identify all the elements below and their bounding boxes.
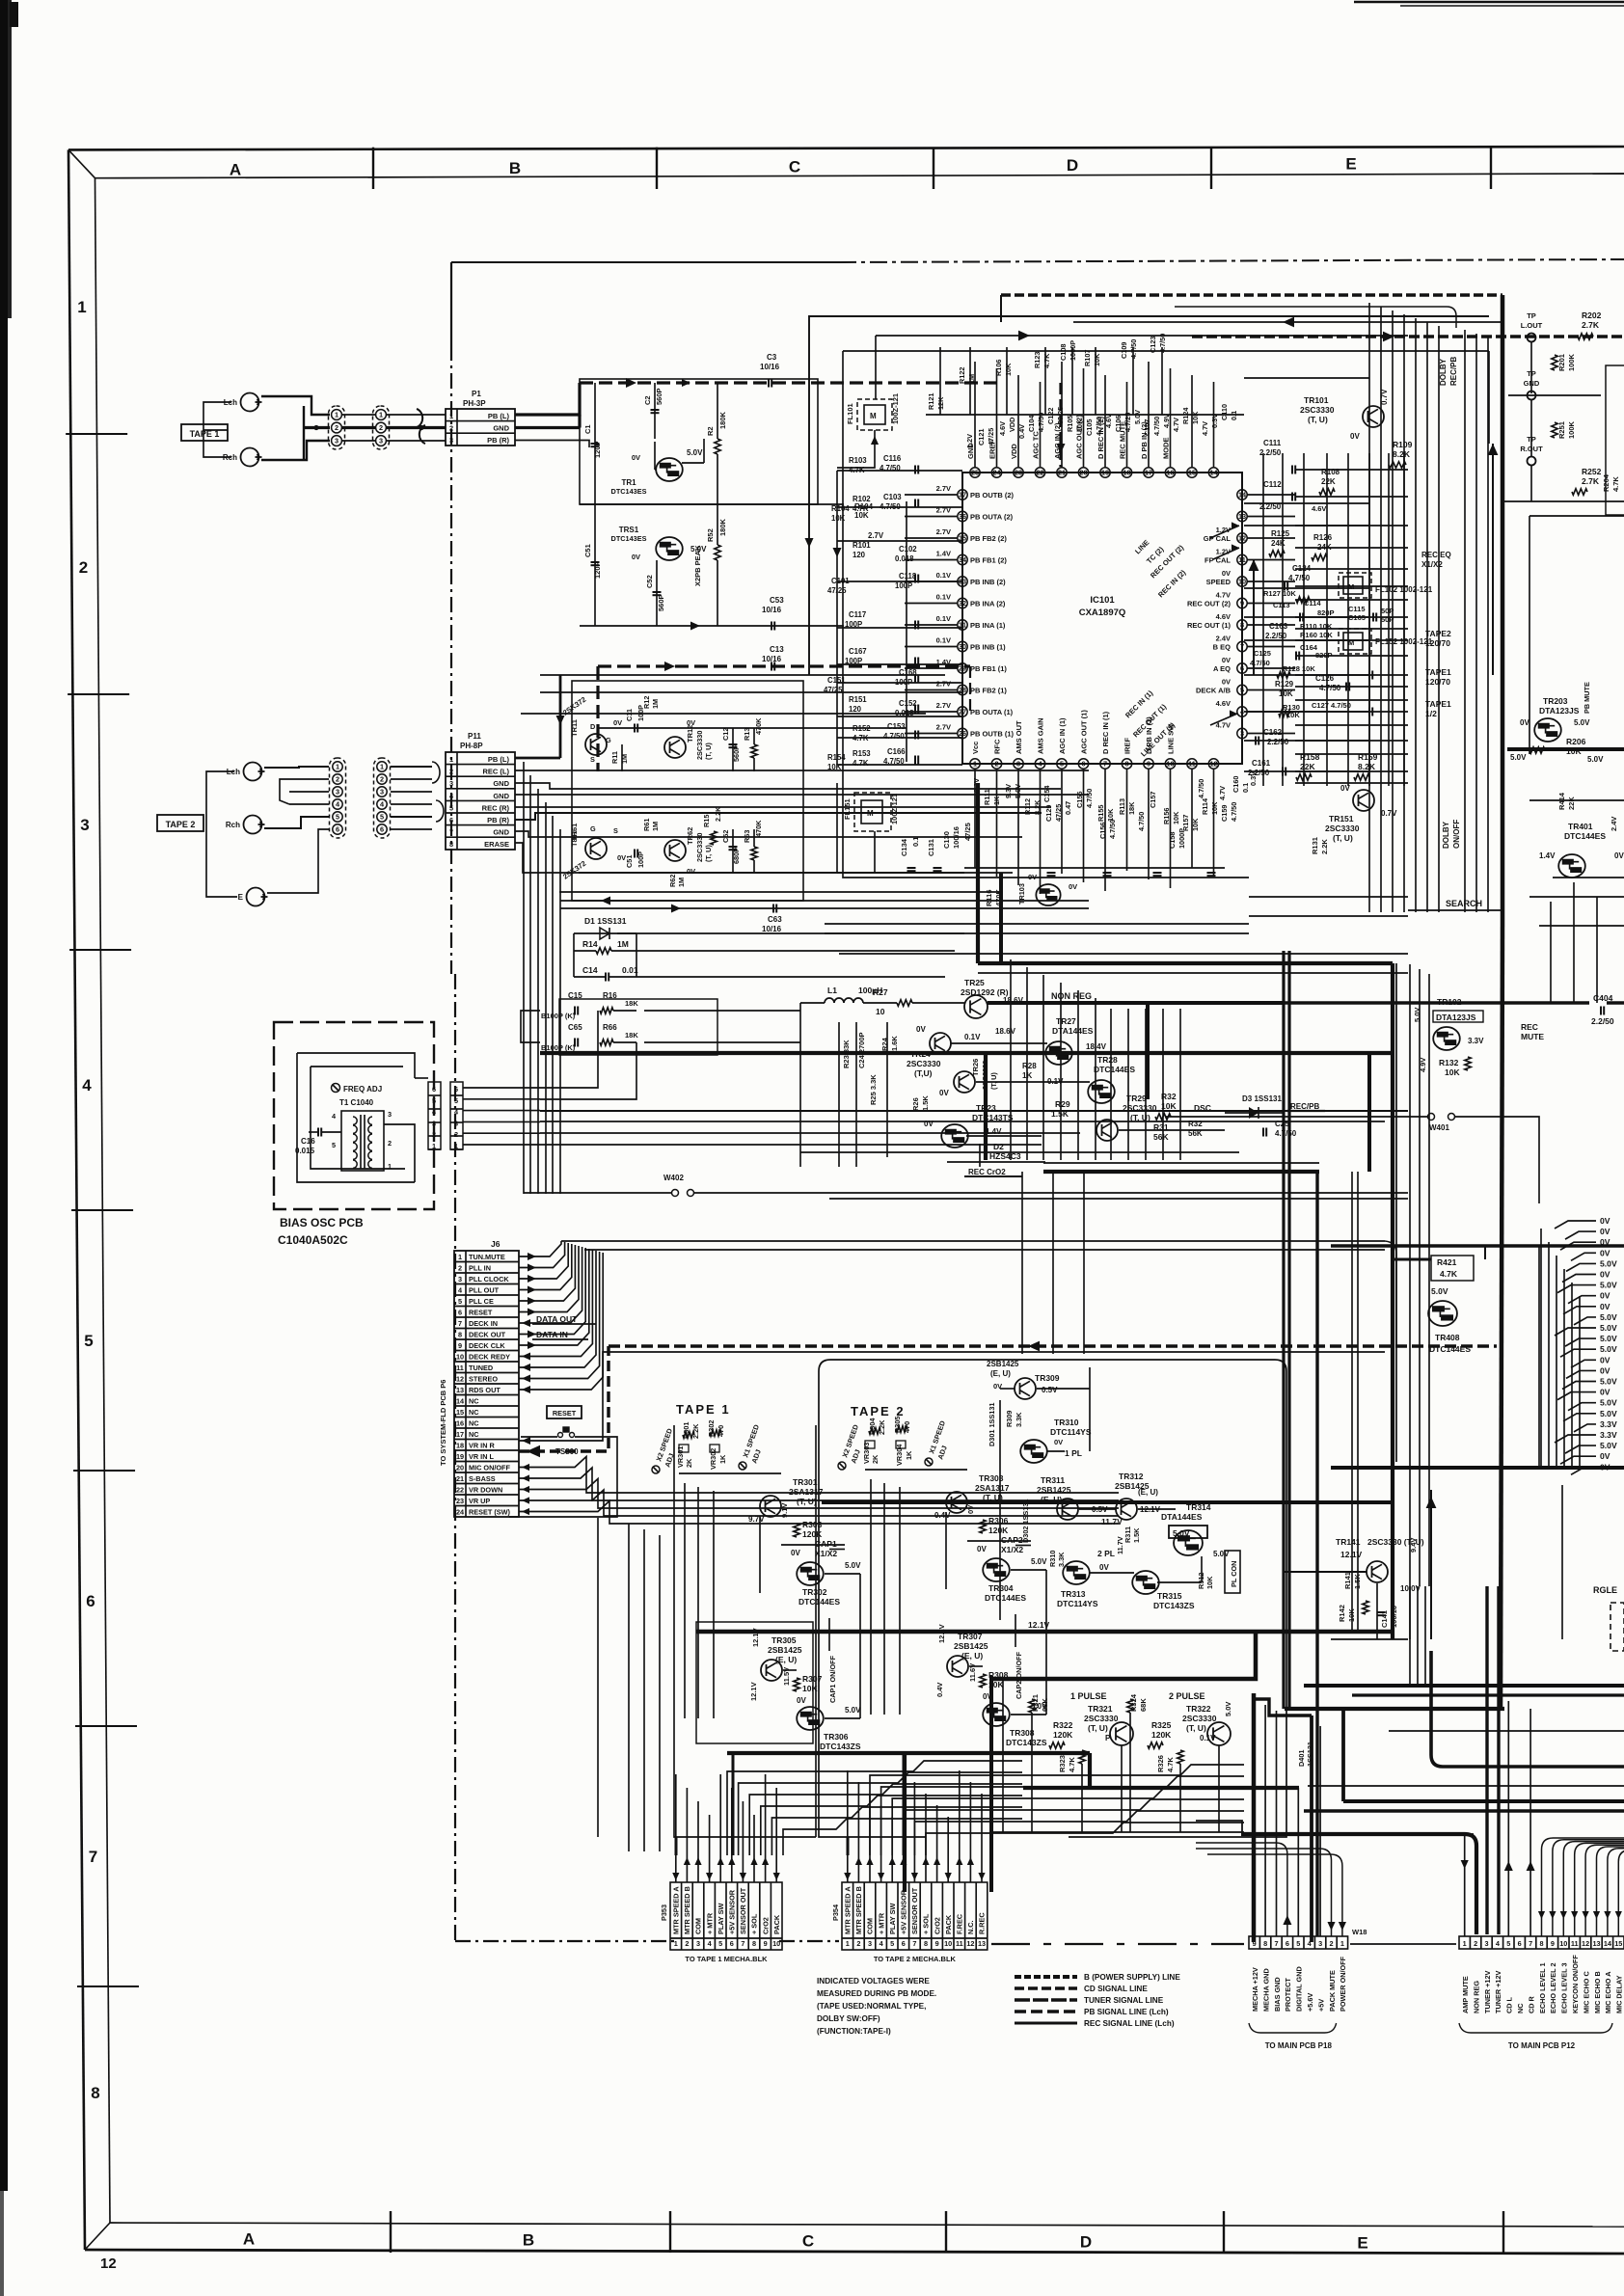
svg-text:8: 8 bbox=[449, 840, 453, 849]
thick bend at R421 bbox=[1393, 1258, 1431, 1261]
svg-text:GND: GND bbox=[493, 424, 509, 433]
svg-text:5: 5 bbox=[454, 1096, 458, 1105]
svg-text:10K: 10K bbox=[1205, 1576, 1214, 1589]
svg-text:1M: 1M bbox=[651, 822, 660, 831]
svg-text:MTR SPEED B: MTR SPEED B bbox=[854, 1886, 863, 1934]
svg-text:TR313: TR313 bbox=[1061, 1589, 1086, 1599]
svg-text:5.0V: 5.0V bbox=[1600, 1281, 1617, 1290]
svg-text:56K: 56K bbox=[1153, 1132, 1169, 1142]
svg-text:0V: 0V bbox=[1600, 1237, 1610, 1247]
TAPE 2 label box bbox=[157, 815, 203, 831]
BIAS OSC PCB box bbox=[274, 1022, 434, 1209]
svg-text:(T,U): (T,U) bbox=[914, 1068, 933, 1078]
legend REC signal line bbox=[1015, 2022, 1077, 2025]
svg-text:4.7V: 4.7V bbox=[1172, 418, 1180, 432]
svg-text:1: 1 bbox=[335, 411, 338, 419]
wire PB dash tape2 join bbox=[907, 381, 1001, 384]
svg-text:12: 12 bbox=[966, 1939, 974, 1948]
svg-text:NC: NC bbox=[469, 1408, 479, 1417]
svg-text:AMP MUTE: AMP MUTE bbox=[1461, 1976, 1470, 2013]
svg-text:PB INA (1): PB INA (1) bbox=[970, 621, 1006, 630]
svg-text:C1: C1 bbox=[583, 424, 592, 434]
PCB boundary dash-dot vertical bbox=[450, 262, 452, 345]
row tick 0 bbox=[66, 433, 127, 435]
svg-text:0V: 0V bbox=[1600, 1291, 1610, 1301]
svg-text:4.7K: 4.7K bbox=[853, 759, 869, 768]
svg-text:D302 1SS131: D302 1SS131 bbox=[1021, 1499, 1030, 1543]
svg-text:R102: R102 bbox=[853, 495, 871, 503]
svg-text:0.7V: 0.7V bbox=[1381, 809, 1397, 818]
transistor TR315 DTC143ZS bbox=[1132, 1571, 1159, 1594]
svg-text:5: 5 bbox=[890, 1939, 894, 1948]
column tick bottom 4 bbox=[1502, 2211, 1504, 2253]
IC101 pin 34 PB FB1 (2) bbox=[958, 554, 967, 564]
svg-text:RFC: RFC bbox=[993, 739, 1002, 754]
svg-text:3: 3 bbox=[449, 779, 453, 788]
svg-text:3: 3 bbox=[696, 1939, 700, 1948]
svg-text:C53: C53 bbox=[770, 596, 784, 605]
signal stub 0V 6 bbox=[1562, 1275, 1596, 1283]
svg-text:5: 5 bbox=[84, 1332, 93, 1350]
svg-text:R309: R309 bbox=[1005, 1411, 1014, 1427]
svg-text:1: 1 bbox=[388, 1162, 392, 1171]
splice bracket bbox=[417, 409, 422, 427]
svg-text:R156: R156 bbox=[1162, 808, 1171, 824]
dash-dot between P353 P354 bbox=[779, 1940, 839, 1942]
svg-text:VR IN R: VR IN R bbox=[469, 1442, 495, 1450]
svg-text:CAP1 ON/OFF: CAP1 ON/OFF bbox=[828, 1655, 837, 1703]
svg-text:3.3V: 3.3V bbox=[1600, 1430, 1617, 1440]
transistor TR26 2SC3330 bbox=[954, 1071, 975, 1093]
svg-text:2.7V: 2.7V bbox=[868, 531, 884, 540]
svg-text:0V: 0V bbox=[797, 1696, 806, 1705]
frame inner border bbox=[95, 174, 1624, 178]
wires into P353 bbox=[672, 1855, 780, 1882]
svg-text:18.6V: 18.6V bbox=[995, 1027, 1016, 1036]
jack Rch TAPE2 bbox=[244, 816, 262, 834]
IC101 pin 16 top bbox=[1165, 468, 1175, 477]
svg-text:VR IN L: VR IN L bbox=[469, 1452, 494, 1461]
svg-text:TR302: TR302 bbox=[802, 1587, 827, 1597]
svg-text:0V: 0V bbox=[791, 1549, 800, 1557]
svg-text:PB (L): PB (L) bbox=[488, 412, 510, 420]
svg-text:R131: R131 bbox=[1311, 837, 1319, 854]
svg-text:2 PULSE: 2 PULSE bbox=[1169, 1691, 1205, 1701]
svg-text:2.4V: 2.4V bbox=[1216, 635, 1231, 643]
svg-text:2.2/50: 2.2/50 bbox=[1265, 632, 1287, 640]
svg-text:NC: NC bbox=[469, 1397, 479, 1406]
svg-text:TUNER +12V: TUNER +12V bbox=[1483, 1970, 1492, 2013]
svg-text:4.6V: 4.6V bbox=[1104, 414, 1113, 428]
power cluster 0V rail bbox=[800, 1151, 1239, 1153]
svg-text:PLL CE: PLL CE bbox=[469, 1297, 494, 1306]
svg-text:R153: R153 bbox=[853, 749, 871, 758]
IC101 pin 4 right bbox=[1237, 707, 1247, 716]
svg-text:D REC IN (1): D REC IN (1) bbox=[1101, 711, 1110, 754]
svg-text:DTC144ES: DTC144ES bbox=[1429, 1344, 1471, 1354]
svg-text:D3 1SS131: D3 1SS131 bbox=[1242, 1094, 1282, 1103]
svg-text:5: 5 bbox=[1240, 686, 1244, 694]
svg-text:4.7/50: 4.7/50 bbox=[1275, 1129, 1297, 1138]
svg-text:10K: 10K bbox=[1075, 419, 1084, 432]
svg-text:R.REC: R.REC bbox=[978, 1912, 987, 1934]
svg-text:TR11: TR11 bbox=[570, 719, 579, 737]
svg-text:4.7/50: 4.7/50 bbox=[1095, 417, 1103, 436]
svg-text:6: 6 bbox=[730, 1939, 734, 1948]
svg-text:2: 2 bbox=[685, 1939, 689, 1948]
svg-text:C117: C117 bbox=[849, 610, 866, 619]
svg-text:TR305: TR305 bbox=[771, 1635, 797, 1645]
svg-text:R106: R106 bbox=[994, 360, 1003, 376]
connector pins TAPE2 a bbox=[330, 758, 346, 838]
svg-text:0.015: 0.015 bbox=[295, 1147, 315, 1155]
svg-text:R15: R15 bbox=[702, 815, 711, 827]
svg-text:PL CON: PL CON bbox=[1230, 1561, 1238, 1587]
svg-text:560P: 560P bbox=[657, 594, 665, 611]
label PL CON boxed bbox=[1225, 1551, 1240, 1593]
svg-text:12: 12 bbox=[1238, 534, 1246, 543]
IC101 pin 12 right bbox=[1237, 533, 1247, 543]
signal stub 5.0V 18 bbox=[1568, 1403, 1596, 1411]
svg-text:0V: 0V bbox=[977, 1545, 987, 1553]
svg-text:1M: 1M bbox=[620, 754, 629, 764]
svg-text:120K: 120K bbox=[1151, 1730, 1172, 1740]
svg-text:4.6V: 4.6V bbox=[1312, 504, 1326, 513]
svg-text:VR303: VR303 bbox=[862, 1443, 871, 1464]
svg-text:4.7/50: 4.7/50 bbox=[1085, 789, 1094, 808]
wire J6 bus line 1 bbox=[561, 1240, 1385, 1242]
svg-text:27: 27 bbox=[959, 708, 966, 716]
svg-text:5: 5 bbox=[432, 1096, 436, 1105]
thick drop x1420 bbox=[1367, 1053, 1371, 1172]
svg-text:PLL IN: PLL IN bbox=[469, 1264, 491, 1273]
svg-text:15: 15 bbox=[1614, 1939, 1622, 1948]
svg-text:DOLBY: DOLBY bbox=[1442, 821, 1450, 849]
svg-text:C129: C129 bbox=[1044, 805, 1053, 822]
wire dashed bottom link bbox=[991, 1943, 1244, 1945]
svg-text:DTC144ES: DTC144ES bbox=[985, 1593, 1026, 1603]
svg-text:5.0V: 5.0V bbox=[1600, 1258, 1617, 1268]
svg-text:11: 11 bbox=[956, 1939, 963, 1948]
svg-text:3: 3 bbox=[80, 816, 89, 834]
svg-text:5.0V: 5.0V bbox=[1587, 755, 1604, 764]
svg-text:36: 36 bbox=[959, 512, 966, 521]
svg-text:R126: R126 bbox=[1313, 533, 1333, 542]
svg-text:3: 3 bbox=[336, 788, 339, 797]
svg-text:18: 18 bbox=[456, 1442, 464, 1450]
svg-text:3: 3 bbox=[1016, 760, 1020, 769]
svg-text:AMS OUT: AMS OUT bbox=[1015, 720, 1023, 754]
IC101 pin 9 right bbox=[1237, 598, 1247, 608]
IC101 pin 31 PB INA (1) bbox=[958, 620, 967, 630]
svg-text:ECHO LEVEL 2: ECHO LEVEL 2 bbox=[1549, 1962, 1557, 2013]
wire J6 pin 1 bbox=[519, 1256, 536, 1257]
svg-text:6: 6 bbox=[902, 1939, 906, 1948]
IC101 pin 8 right bbox=[1237, 620, 1247, 630]
svg-text:2SC3330: 2SC3330 bbox=[695, 731, 704, 760]
svg-text:TR26: TR26 bbox=[971, 1059, 980, 1076]
transistor TR24 2SC3330 bbox=[930, 1033, 951, 1054]
svg-text:PB (R): PB (R) bbox=[487, 816, 509, 824]
thin rails around y999 bbox=[825, 923, 1249, 925]
C15 box bbox=[559, 999, 717, 1055]
signal stub 0V 9 bbox=[1563, 1307, 1596, 1314]
svg-text:BIAS GND: BIAS GND bbox=[1273, 1977, 1282, 2012]
svg-text:R306: R306 bbox=[988, 1516, 1009, 1526]
svg-text:TR27: TR27 bbox=[1056, 1016, 1076, 1026]
svg-text:2: 2 bbox=[856, 1939, 860, 1948]
wire J6 pin 23 bbox=[519, 1499, 536, 1501]
svg-text:2: 2 bbox=[380, 775, 384, 784]
svg-text:14: 14 bbox=[456, 1397, 465, 1406]
PCB boundary dash-dot bottom horizontal bbox=[455, 1940, 675, 1942]
svg-text:680P: 680P bbox=[732, 848, 741, 864]
wire J6 bus line 2 bbox=[584, 1249, 1385, 1251]
svg-text:DECK REDY: DECK REDY bbox=[469, 1353, 510, 1362]
svg-text:REC OUT (2): REC OUT (2) bbox=[1187, 600, 1232, 608]
svg-text:DTC143ZS: DTC143ZS bbox=[1006, 1738, 1047, 1747]
wire J6 pin 3 bbox=[519, 1278, 536, 1280]
svg-text:C2: C2 bbox=[643, 395, 652, 405]
svg-text:1: 1 bbox=[449, 412, 453, 420]
IC101 pin 5 bottom bbox=[1057, 759, 1067, 769]
svg-text:ECHO LEVEL 1: ECHO LEVEL 1 bbox=[1538, 1962, 1547, 2013]
svg-text:C155: C155 bbox=[1075, 792, 1084, 808]
svg-text:REC/PB: REC/PB bbox=[1449, 357, 1458, 386]
svg-text:8: 8 bbox=[752, 1939, 756, 1948]
wire J6 pin 22 bbox=[519, 1489, 536, 1491]
IC101 pin 33 PB INB (2) bbox=[958, 577, 967, 586]
svg-text:2SC3330: 2SC3330 bbox=[1325, 824, 1360, 833]
svg-text:TO TAPE 1 MECHA.BLK: TO TAPE 1 MECHA.BLK bbox=[685, 1955, 768, 1963]
svg-text:SENSOR OUT: SENSOR OUT bbox=[910, 1887, 919, 1934]
svg-text:C121: C121 bbox=[977, 429, 986, 446]
TAPE2 block outer box bbox=[830, 1360, 1286, 1837]
FREQ ADJ bbox=[332, 1084, 340, 1093]
svg-text:4.7K: 4.7K bbox=[853, 504, 869, 513]
label X2 SPEED ADJ T1 bbox=[652, 1466, 660, 1473]
svg-text:(T, U): (T, U) bbox=[1333, 833, 1353, 843]
svg-text:4.7K: 4.7K bbox=[1166, 1757, 1175, 1772]
svg-text:TO MAIN PCB P12: TO MAIN PCB P12 bbox=[1508, 2041, 1576, 2050]
svg-text:DATA OUT: DATA OUT bbox=[536, 1314, 578, 1324]
IC101 pin 11 right bbox=[1237, 554, 1247, 564]
svg-text:5: 5 bbox=[458, 1297, 462, 1306]
svg-text:TUN.MUTE: TUN.MUTE bbox=[469, 1253, 505, 1261]
wire J6 pin 20 bbox=[519, 1467, 536, 1469]
IC101 pin 35 PB FB2 (2) bbox=[958, 533, 967, 543]
svg-text:T861: T861 bbox=[570, 830, 579, 847]
svg-text:0.018: 0.018 bbox=[895, 554, 914, 563]
svg-text:D301 1SS131: D301 1SS131 bbox=[988, 1403, 996, 1446]
svg-text:DTC143ZS: DTC143ZS bbox=[820, 1742, 861, 1751]
up arrow right bbox=[1488, 444, 1499, 455]
svg-text:6: 6 bbox=[454, 1085, 458, 1094]
svg-text:2: 2 bbox=[454, 1130, 458, 1139]
svg-text:1.6K: 1.6K bbox=[890, 1036, 899, 1051]
svg-text:C153: C153 bbox=[887, 722, 906, 731]
svg-text:12.1V: 12.1V bbox=[749, 1682, 758, 1701]
svg-text:TR1: TR1 bbox=[621, 478, 636, 487]
svg-text:RESET: RESET bbox=[553, 1409, 577, 1418]
svg-text:R125: R125 bbox=[1271, 529, 1290, 538]
svg-text:AGC TC: AGC TC bbox=[1032, 431, 1041, 459]
svg-text:C130: C130 bbox=[942, 831, 951, 849]
svg-text:180K: 180K bbox=[718, 518, 727, 536]
svg-text:COM: COM bbox=[694, 1918, 703, 1934]
row tick 1 bbox=[68, 693, 129, 695]
wire fan into P354 bbox=[870, 1765, 1244, 1855]
svg-text:470K: 470K bbox=[754, 820, 763, 837]
transistor TR313 DTC114YS bbox=[1063, 1561, 1090, 1584]
svg-text:9: 9 bbox=[935, 1939, 939, 1948]
svg-text:R52: R52 bbox=[706, 528, 715, 542]
label X1 SPEED ADJ T2 bbox=[925, 1458, 933, 1466]
TAPE1 inner box TR305 TR306 bbox=[696, 1622, 813, 1743]
thick rail y1522 bbox=[1331, 1466, 1624, 1470]
svg-text:TUNER SIGNAL LINE: TUNER SIGNAL LINE bbox=[1084, 1996, 1164, 2005]
signal stub 5.0V 7 bbox=[1557, 1285, 1596, 1293]
IC101 pin 29 PB FB1 (1) bbox=[958, 663, 967, 673]
signal stub 0V 3 bbox=[1560, 1242, 1596, 1250]
wire J6 pin 10 bbox=[519, 1356, 536, 1358]
svg-text:2.2K: 2.2K bbox=[1320, 839, 1329, 854]
wires TR309-TR315 cluster bbox=[1000, 1367, 1202, 1620]
svg-text:4.7V: 4.7V bbox=[1218, 786, 1227, 800]
svg-text:(E, U): (E, U) bbox=[990, 1369, 1011, 1378]
svg-text:0V: 0V bbox=[1600, 1302, 1610, 1311]
svg-text:0V: 0V bbox=[1600, 1227, 1610, 1236]
IC101 pin 7 bottom bbox=[1100, 759, 1110, 769]
svg-text:560P: 560P bbox=[655, 388, 663, 405]
svg-text:5.0V: 5.0V bbox=[1600, 1334, 1617, 1343]
thin verticals x1402 bbox=[1351, 1172, 1353, 1632]
svg-text:C104: C104 bbox=[1027, 415, 1036, 432]
svg-text:DTC143ES: DTC143ES bbox=[611, 487, 647, 496]
svg-text:4: 4 bbox=[82, 1076, 92, 1094]
svg-text:0V: 0V bbox=[1600, 1355, 1610, 1364]
long wires P11 to IC left bbox=[521, 675, 1013, 977]
wire J6 pin 12 bbox=[519, 1378, 536, 1380]
svg-text:CrO2: CrO2 bbox=[933, 1917, 941, 1934]
svg-text:C112: C112 bbox=[1263, 480, 1282, 489]
IC101 pin 27 PB OUTA (1) bbox=[958, 707, 967, 716]
svg-text:TR315: TR315 bbox=[1157, 1591, 1182, 1601]
svg-text:TAPE 1: TAPE 1 bbox=[676, 1402, 731, 1417]
legend B power supply line bbox=[1015, 1975, 1077, 1979]
signal stub 0V 15 bbox=[1566, 1370, 1596, 1378]
svg-text:2.2/50: 2.2/50 bbox=[1591, 1016, 1614, 1026]
svg-text:10: 10 bbox=[1559, 1939, 1567, 1948]
IC101 pin 17 top bbox=[1144, 468, 1153, 477]
svg-text:5.0V: 5.0V bbox=[1600, 1409, 1617, 1418]
heavy rail y1902 to P12 bbox=[1196, 1821, 1474, 1834]
wire ladder right column bbox=[1244, 303, 1488, 916]
svg-text:5: 5 bbox=[1296, 1939, 1300, 1948]
svg-text:6: 6 bbox=[1081, 760, 1085, 769]
TAPE2 preamp box bbox=[572, 681, 803, 901]
svg-text:C125: C125 bbox=[1254, 649, 1271, 658]
vertical bundle below P11 bbox=[524, 762, 560, 1194]
svg-text:PH-3P: PH-3P bbox=[463, 399, 486, 408]
svg-text:13: 13 bbox=[1238, 512, 1246, 521]
wire J6 pin 7 bbox=[519, 1322, 536, 1324]
wire J6 VR IN L PB dashed bbox=[519, 1346, 609, 1451]
svg-text:0V: 0V bbox=[632, 453, 640, 462]
svg-text:DECK IN: DECK IN bbox=[469, 1319, 498, 1328]
svg-text:C110: C110 bbox=[1220, 404, 1229, 420]
capacitor C11 100P bbox=[634, 724, 636, 733]
svg-text:C105: C105 bbox=[1085, 419, 1094, 436]
svg-text:TO MAIN PCB P18: TO MAIN PCB P18 bbox=[1265, 2041, 1333, 2050]
svg-text:1K: 1K bbox=[905, 1450, 913, 1460]
svg-text:TR401: TR401 bbox=[1568, 822, 1593, 831]
svg-text:3: 3 bbox=[379, 437, 383, 446]
svg-text:R201: R201 bbox=[1557, 354, 1566, 371]
svg-text:23: 23 bbox=[456, 1497, 464, 1505]
TAPE 1 label box bbox=[181, 424, 228, 441]
svg-text:1: 1 bbox=[379, 411, 383, 419]
svg-text:C115: C115 bbox=[1348, 605, 1366, 613]
wire J6 pin 21 bbox=[519, 1477, 536, 1479]
svg-text:TR311: TR311 bbox=[1041, 1475, 1065, 1485]
svg-text:1: 1 bbox=[458, 1253, 462, 1261]
svg-text:5: 5 bbox=[718, 1939, 722, 1948]
wire J6 pin 9 bbox=[519, 1344, 536, 1346]
svg-text:C: C bbox=[789, 158, 800, 176]
svg-text:B100P (K): B100P (K) bbox=[541, 1043, 576, 1052]
svg-text:R141: R141 bbox=[1343, 1572, 1352, 1589]
svg-text:4.7/50: 4.7/50 bbox=[1197, 779, 1205, 798]
svg-text:REC CrO2: REC CrO2 bbox=[968, 1168, 1006, 1176]
svg-text:C166: C166 bbox=[887, 747, 906, 756]
IC101 pin 5 right bbox=[1237, 685, 1247, 694]
svg-text:VR UP: VR UP bbox=[469, 1497, 490, 1505]
wires TR141 bbox=[1283, 1572, 1408, 1639]
svg-text:820P: 820P bbox=[1317, 608, 1335, 617]
svg-text:TR203: TR203 bbox=[1543, 696, 1568, 706]
svg-text:A EQ: A EQ bbox=[1213, 664, 1231, 673]
svg-text:PB (R): PB (R) bbox=[487, 436, 509, 445]
svg-text:32: 32 bbox=[959, 599, 966, 608]
svg-text:REC SIGNAL LINE (Lch): REC SIGNAL LINE (Lch) bbox=[1084, 2019, 1175, 2028]
svg-text:7: 7 bbox=[449, 828, 453, 837]
svg-text:26: 26 bbox=[959, 729, 966, 738]
svg-text:C65: C65 bbox=[568, 1023, 582, 1032]
svg-text:0V: 0V bbox=[1600, 1451, 1610, 1461]
svg-text:P11: P11 bbox=[468, 732, 481, 741]
svg-text:NON REG: NON REG bbox=[1051, 991, 1092, 1001]
svg-text:17: 17 bbox=[1145, 469, 1152, 477]
svg-text:C131: C131 bbox=[927, 839, 935, 856]
signal stub 0V 1 bbox=[1555, 1221, 1596, 1229]
signal stub 5.0V 10 bbox=[1574, 1317, 1596, 1325]
svg-text:1K: 1K bbox=[992, 796, 1001, 805]
svg-text:DTC114YS: DTC114YS bbox=[1050, 1427, 1092, 1437]
svg-text:TR103: TR103 bbox=[1017, 883, 1026, 905]
svg-text:0.4V: 0.4V bbox=[934, 1511, 951, 1520]
svg-text:0.5V: 0.5V bbox=[1042, 1386, 1058, 1394]
column tick top 2 bbox=[933, 148, 934, 189]
svg-text:2: 2 bbox=[449, 768, 453, 776]
svg-text:X2PB PEAK: X2PB PEAK bbox=[693, 545, 702, 586]
svg-text:1: 1 bbox=[336, 763, 339, 771]
svg-text:13: 13 bbox=[1592, 1939, 1600, 1948]
svg-text:47/25: 47/25 bbox=[963, 823, 972, 841]
svg-text:9: 9 bbox=[1147, 760, 1150, 769]
capacitor C51 bbox=[594, 504, 596, 626]
svg-text:1M: 1M bbox=[677, 878, 686, 887]
